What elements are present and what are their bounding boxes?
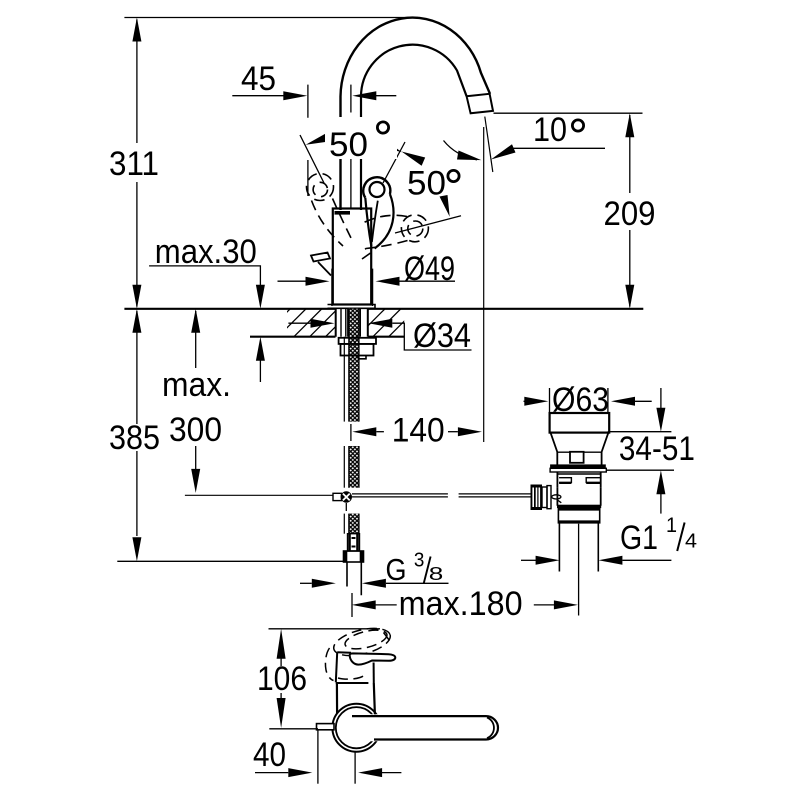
pipe mid line <box>350 154 352 209</box>
drain seal collar white band <box>550 468 606 472</box>
dim Ø49 <box>332 269 373 306</box>
drain body slots <box>559 478 571 483</box>
dim 45 <box>232 95 283 97</box>
drain seal collar black band <box>551 465 606 468</box>
dim 106 <box>269 628 381 630</box>
locknut washer below deck <box>339 338 376 344</box>
deck hatching <box>262 309 416 337</box>
horizontal rod reference line <box>185 494 333 496</box>
G3/8 pipe end <box>347 562 361 595</box>
svg-text:Ø34: Ø34 <box>413 317 471 355</box>
svg-text:45: 45 <box>241 60 276 98</box>
svg-text:max.180: max.180 <box>399 585 523 623</box>
10deg: curved arc with arrow <box>444 141 478 160</box>
drain axis line <box>578 524 580 616</box>
spout tube top view <box>352 714 486 741</box>
svg-text:4: 4 <box>685 531 697 553</box>
dim G3/8 <box>300 582 312 584</box>
svg-text:385: 385 <box>109 419 160 457</box>
top extension line <box>124 17 418 19</box>
handle loop dashed left (50 deg open) <box>307 174 353 247</box>
shared neutral-axis radial line with X arrows <box>383 142 405 183</box>
handle tail to pivot <box>365 198 371 247</box>
body column <box>337 683 375 714</box>
deck bottom line <box>250 336 404 338</box>
G3/8 nut <box>344 551 364 562</box>
svg-text:3: 3 <box>414 549 425 571</box>
braided hose lower segment <box>344 514 359 534</box>
body top tick <box>335 211 351 215</box>
svg-text:G: G <box>386 552 407 587</box>
faucet body <box>333 209 371 305</box>
vertical reference line from nozzle <box>483 127 485 442</box>
drain main body <box>557 488 600 506</box>
svg-text:max.30: max.30 <box>155 233 257 271</box>
adjuster pointer <box>552 495 561 499</box>
svg-text:311: 311 <box>109 145 159 183</box>
dim 40 <box>255 772 288 774</box>
svg-text:106: 106 <box>257 660 307 698</box>
svg-text:max.: max. <box>162 366 231 404</box>
dim 34-51 <box>608 431 672 433</box>
spout arc outer wall <box>341 18 491 210</box>
spout arc inner wall <box>361 45 467 210</box>
body base plate <box>328 305 376 309</box>
shank lines in hole <box>341 309 360 337</box>
svg-text:Ø63: Ø63 <box>552 381 609 419</box>
handle loop dashed (top view) <box>325 623 393 680</box>
svg-text:G1: G1 <box>620 519 658 557</box>
svg-text:50: 50 <box>329 126 368 164</box>
50deg #1 leaders <box>300 135 324 183</box>
handle loop solid: ring head <box>363 177 390 198</box>
dim Ø34 <box>288 322 310 324</box>
svg-text:8: 8 <box>429 563 444 584</box>
handle loop dashed right (50 deg down) <box>361 215 428 259</box>
svg-text:34-51: 34-51 <box>619 430 695 468</box>
drain flange Ø63 <box>550 413 610 433</box>
svg-text:Ø49: Ø49 <box>404 250 455 288</box>
mounting hole edges <box>336 309 368 337</box>
spout nozzle <box>467 94 493 114</box>
adjuster knurled knob <box>531 485 543 511</box>
10deg horizontal leader <box>513 147 605 149</box>
drain pull knob at body left <box>311 253 330 262</box>
drain lower collar <box>558 508 599 523</box>
adjuster rings <box>542 487 547 508</box>
deck top surface line <box>124 308 643 310</box>
drain upper body <box>557 473 602 475</box>
dim G1 1/4 <box>521 559 537 561</box>
drain neck taper <box>551 433 609 452</box>
locknut step <box>359 356 367 359</box>
dim 385 <box>136 311 138 536</box>
svg-text:209: 209 <box>604 195 656 233</box>
drain rod stub <box>317 724 335 730</box>
escutcheon circles <box>332 704 380 752</box>
locknut <box>341 344 374 356</box>
body box <box>337 651 351 654</box>
lever blade solid <box>350 653 396 664</box>
braided hose upper (through deck) <box>344 309 359 422</box>
outlet level extension <box>494 112 643 114</box>
dim 209 <box>629 115 631 307</box>
horizontal rod to drain <box>352 494 531 497</box>
svg-text:300: 300 <box>169 411 222 449</box>
pull rod diagonal <box>318 262 331 276</box>
svg-text:140: 140 <box>392 412 445 450</box>
braided hose mid segment <box>344 446 359 488</box>
water flow direction line (10 deg) <box>485 117 493 172</box>
drain neck square bump <box>570 452 584 463</box>
dim 140 <box>376 431 384 433</box>
dim max.30 <box>149 266 260 287</box>
rod ball joint <box>341 491 352 502</box>
50deg #2 leader <box>395 216 461 233</box>
ball stem below <box>345 503 347 511</box>
dim max300 <box>195 311 197 470</box>
drain tailpipe <box>559 523 598 572</box>
svg-text:40: 40 <box>253 736 286 774</box>
dim max.180 <box>368 604 397 606</box>
svg-text:50: 50 <box>407 165 446 203</box>
hose connector fitting <box>348 534 360 551</box>
svg-text:1: 1 <box>666 514 677 537</box>
svg-text:10: 10 <box>533 111 567 149</box>
dim Ø63 <box>550 388 608 413</box>
dim 311 <box>136 20 138 307</box>
rod clamp <box>333 493 342 500</box>
